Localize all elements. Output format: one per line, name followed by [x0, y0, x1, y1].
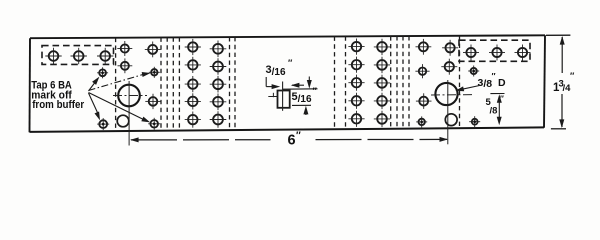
5/8 dimension line [498, 100, 500, 121]
hole col-218 2 [210, 58, 227, 75]
svg-text:3/8: 3/8 [478, 77, 493, 90]
dashed line divider mid-right b [345, 36, 347, 129]
dimension line 6" left part [131, 139, 271, 141]
dashed line dash group R 3 [402, 36, 404, 129]
dashed box left [42, 46, 114, 65]
hole col-152 1 [145, 42, 161, 58]
dashed line divider left [115, 38, 117, 132]
circle r6 left [117, 115, 129, 127]
big hole 3/8D left [113, 85, 147, 107]
hole col-449 1 [442, 40, 458, 56]
svg-text:from buffer: from buffer [32, 99, 85, 111]
bottom extension line right [551, 128, 566, 130]
hole col-422 1 [416, 39, 432, 55]
hole col-193 1 [185, 39, 201, 55]
slot centerline stub left [268, 96, 277, 98]
svg-text:6: 6 [288, 133, 296, 149]
dashed line dash group R 4 [408, 36, 410, 129]
hole col-382 3 [374, 75, 390, 91]
dimension line 1 3/4 top [561, 37, 563, 73]
hole col-356 5 [348, 111, 364, 127]
svg-text:″: ″ [492, 71, 496, 81]
top extension line right [546, 34, 570, 36]
hole col-193 3 [185, 76, 201, 92]
dashed line dash group L 4 [178, 37, 180, 130]
hole col-356 2 [348, 57, 364, 73]
svg-text:″: ″ [500, 95, 504, 104]
hole col-193 4 [185, 93, 201, 109]
leader 3/16 down-right with arrow [265, 77, 267, 87]
dashed line dash group L 2 [166, 37, 168, 131]
hole col-152 3 [145, 94, 160, 109]
hole col-218 1 [210, 41, 227, 58]
hole col-193 2 [185, 57, 201, 73]
leader to tap hole RT (dash-dot) [89, 74, 145, 90]
svg-text:3/16: 3/16 [266, 64, 286, 78]
hole box-L 3 [97, 48, 113, 64]
plate outline [30, 35, 546, 132]
tap hole LB [97, 118, 109, 130]
big hole 3/8D right [431, 83, 473, 105]
hole box-R 1 [463, 45, 479, 61]
dashed line dash group R 2 [396, 36, 398, 129]
centerline big hole left / 6in extension [128, 81, 130, 146]
5/16 bottom arrow (up) [305, 111, 307, 115]
svg-text:″: ″ [313, 86, 318, 96]
dashed box right [459, 40, 530, 61]
hole col-193 5 [185, 112, 201, 128]
dashed line divider mid-left b [234, 37, 236, 130]
hole box-R 3 [515, 45, 531, 61]
hole col-382 1 [374, 39, 390, 55]
svg-text:/8: /8 [490, 106, 498, 117]
tap hole RT [149, 67, 160, 78]
hole 473 [468, 66, 479, 77]
hole col-218 5 [210, 111, 227, 128]
hole box-L 2 [71, 48, 87, 64]
leader 3/8D to big hole [460, 86, 480, 90]
hole col-382 4 [374, 93, 390, 109]
hole 5/8 [469, 116, 480, 127]
hole col-218 3 [210, 76, 227, 93]
svg-text:″: ″ [570, 71, 575, 81]
dashed line divider right [459, 36, 461, 129]
dashed line dash group L 1 [160, 38, 162, 132]
hole col-449 2 [441, 59, 457, 75]
dimension line 6" right part [316, 138, 448, 140]
svg-text:D: D [498, 77, 506, 89]
hole col-218 4 [210, 94, 227, 111]
hole col-125 2 [118, 58, 133, 73]
hole box-R 2 [489, 45, 505, 61]
svg-text:″: ″ [296, 131, 301, 142]
5/16 top extension line [283, 88, 318, 90]
hole col-356 3 [348, 75, 364, 91]
leader to tap hole LT [89, 80, 98, 92]
hole col-422 2 [415, 64, 429, 78]
5/16 top arrow (down) [308, 77, 310, 84]
dashed line dash group L 3 [172, 37, 174, 131]
dashed line divider mid-left a [229, 37, 231, 130]
hole col-125 1 [117, 41, 132, 56]
dashed line dash group R 1 [390, 36, 392, 129]
tap hole LT [97, 67, 108, 78]
svg-text:/4: /4 [563, 83, 572, 94]
hole box-L 1 [45, 48, 61, 64]
hole col-356 4 [348, 93, 364, 109]
hole col-422 3 [416, 93, 432, 109]
svg-text:5/16: 5/16 [292, 91, 312, 105]
centerline big hole right / 6in extension [447, 80, 449, 144]
svg-text:″: ″ [288, 58, 293, 68]
tap hole RB [148, 118, 160, 130]
arrow 3/16 pointing left [292, 84, 304, 86]
hole col-382 2 [374, 57, 390, 73]
5/16 bottom extension line [292, 104, 311, 106]
hole col-382 5 [374, 111, 390, 127]
dashed line divider mid-right a [334, 37, 336, 130]
tap hole right-bottom [416, 116, 427, 127]
dimension line 1 3/4 bottom [561, 94, 563, 127]
leader to tap hole RB [89, 93, 145, 121]
slot rectangle [278, 91, 290, 108]
leader to tap hole LB [89, 93, 99, 115]
circle r6 right [445, 114, 457, 126]
5/8 top reference line [490, 93, 504, 95]
hole col-356 1 [348, 39, 364, 55]
slot centerline vertical [282, 82, 284, 111]
